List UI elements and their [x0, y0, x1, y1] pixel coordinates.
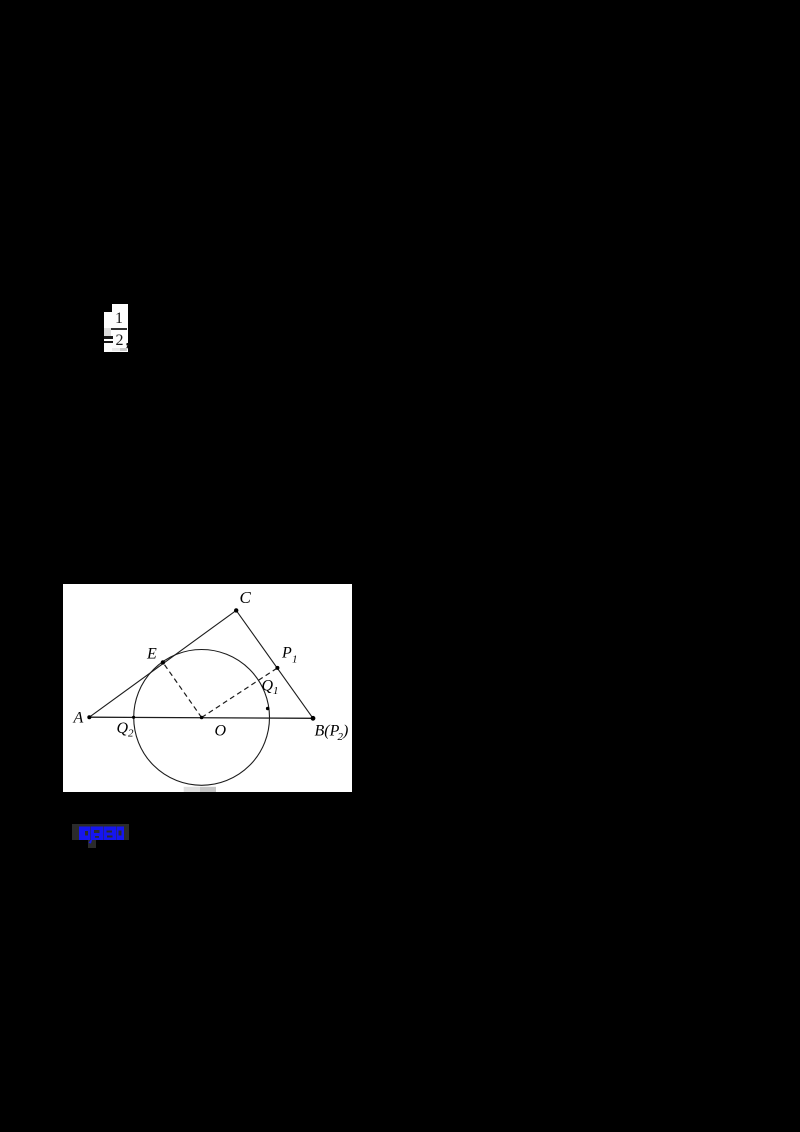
point E — [161, 660, 165, 664]
figure background — [63, 584, 352, 792]
svg-text:1: 1 — [292, 654, 298, 666]
point P1 — [275, 666, 279, 670]
middle glyph 1 with descender tail — [89, 827, 104, 844]
dashed radius OE — [163, 662, 202, 717]
equals sign bottom bar — [104, 341, 113, 344]
middle glyph 2 — [104, 827, 117, 841]
bottom grey strip dark — [120, 348, 127, 351]
point A — [87, 715, 91, 719]
equation patch "= 1/2," — [104, 312, 112, 352]
svg-text:1: 1 — [273, 685, 279, 697]
comma — [126, 343, 131, 349]
svg-text:B(P: B(P — [315, 723, 340, 740]
geometry figure — [63, 584, 352, 792]
point Q2 — [132, 716, 135, 719]
bottom grey strip light — [112, 348, 120, 351]
side AC — [89, 610, 236, 717]
svg-text:P: P — [281, 645, 292, 662]
grey block left of fraction bar — [104, 328, 111, 336]
svg-text:A: A — [73, 710, 84, 727]
point O — [200, 716, 204, 720]
svg-text:2: 2 — [128, 728, 134, 740]
svg-text:Q: Q — [262, 678, 274, 695]
svg-text:): ) — [342, 723, 348, 740]
circle O — [134, 650, 270, 786]
numerator 1 — [112, 311, 126, 327]
denominator 2 — [113, 333, 127, 349]
svg-text:Q: Q — [117, 720, 129, 737]
point on circle right — [266, 707, 270, 711]
svg-text:O: O — [215, 723, 227, 740]
blue bold marker glyphs — [79, 826, 125, 846]
svg-text:E: E — [146, 646, 157, 663]
grey strip under circle bottom — [184, 787, 200, 792]
grey box below marker — [88, 840, 96, 848]
equals sign top bar — [104, 336, 113, 339]
left bracket glyph — [79, 827, 90, 841]
point B — [311, 716, 316, 721]
side CB — [236, 610, 313, 718]
point C — [234, 608, 238, 612]
side AB — [89, 717, 313, 718]
right bracket glyph — [117, 827, 125, 841]
dashed line OP1 — [202, 668, 278, 718]
answer marker highlight — [72, 824, 129, 840]
svg-text:C: C — [240, 588, 252, 607]
fraction bar — [111, 328, 127, 330]
